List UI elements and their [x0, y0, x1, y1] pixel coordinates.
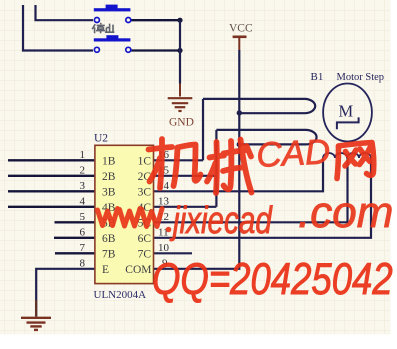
svg-text:QQ=20425042: QQ=20425042	[152, 254, 393, 304]
wire: pin4 input	[8, 206, 95, 208]
wire: top-left vertical to switch pole 2	[23, 5, 93, 51]
node: junction VCC / winding1 bottom	[237, 110, 242, 115]
wire: top-left vertical to switch pole 1	[36, 5, 94, 20]
svg-text:.com: .com	[298, 188, 393, 237]
wire: pin1 input	[8, 159, 95, 161]
node: junction VCC / winding2 bottom	[237, 142, 242, 147]
switch S1 pole 1 (stop button)	[94, 5, 131, 23]
wire: pin3 input	[8, 190, 95, 192]
wire: pin15 stub	[154, 175, 216, 177]
IC U2 ULN2004A body	[95, 145, 154, 283]
svg-text:4: 4	[80, 195, 86, 207]
label: 停止 (stop) hand-drawn glyphs	[92, 23, 114, 33]
svg-text:1B: 1B	[102, 155, 116, 167]
www hand-drawn	[98, 209, 163, 227]
node: junction at rail/pole1	[177, 18, 182, 23]
svg-text:3C: 3C	[138, 186, 152, 198]
svg-text:8: 8	[80, 257, 86, 269]
wire: riser pin13 to winding2 top	[215, 130, 217, 207]
wire: pin13 stub	[154, 206, 217, 208]
wire: pin10 stub	[154, 252, 193, 254]
svg-text:1: 1	[80, 149, 86, 161]
svg-text:6C: 6C	[138, 233, 152, 245]
watermark char 网	[337, 143, 374, 179]
svg-text:2B: 2B	[102, 171, 116, 183]
svg-text:3: 3	[80, 180, 86, 192]
wire: switch pole2 right to GND rail	[131, 49, 180, 51]
wire: pin2 input	[8, 175, 95, 177]
motor coil wavy line	[323, 153, 371, 158]
motor B1 body	[323, 84, 372, 142]
svg-text:10: 10	[158, 242, 170, 254]
svg-text:13: 13	[158, 195, 170, 207]
pin numbers right	[158, 149, 170, 269]
svg-text:jixiecad: jixiecad	[170, 200, 273, 242]
svg-text:ULN2004A: ULN2004A	[94, 289, 147, 301]
period after www	[166, 227, 172, 233]
svg-text:6B: 6B	[102, 233, 116, 245]
pin numbers left	[80, 149, 86, 269]
wire: pin16 stub	[154, 159, 204, 161]
wire: pin7 input	[55, 252, 95, 254]
switch S1 pole 2	[94, 35, 131, 52]
svg-text:6: 6	[80, 226, 86, 238]
svg-text:5: 5	[80, 211, 86, 223]
wire: pin5 input	[55, 221, 95, 223]
svg-text:CAD: CAD	[255, 132, 331, 175]
svg-text:7B: 7B	[102, 248, 116, 260]
svg-text:E: E	[102, 264, 109, 276]
svg-text:VCC: VCC	[229, 23, 253, 35]
svg-text:1C: 1C	[138, 155, 152, 167]
watermark text www.jixiecad.com	[98, 188, 394, 242]
svg-text:GND: GND	[169, 117, 194, 129]
ground symbol GND (top)	[168, 98, 193, 111]
wire: motor pin C riser to pin11	[154, 158, 372, 238]
svg-text:M: M	[339, 102, 354, 121]
wire: motor pin B riser to pin12	[154, 158, 348, 222]
svg-text:COM: COM	[125, 264, 151, 276]
svg-text:7C: 7C	[138, 248, 152, 260]
wire: pin6 input	[54, 237, 95, 239]
svg-text:7: 7	[80, 242, 86, 254]
node: junction at rail/pole2	[177, 48, 182, 53]
watermark char 械	[207, 140, 252, 194]
wire: pin8 E to ground	[36, 269, 95, 317]
wire: vertical rail down to ground	[179, 20, 181, 83]
wire: motor pin A riser to pin14	[154, 158, 324, 191]
svg-text:U2: U2	[94, 133, 108, 145]
wire: switch pole1 right to GND rail	[131, 19, 180, 21]
pin labels right column	[125, 155, 151, 275]
wire: VCC rail down to pin 9	[154, 50, 240, 269]
svg-text:Motor Step: Motor Step	[337, 72, 385, 83]
watermark char 机	[149, 139, 201, 188]
power symbol VCC	[233, 35, 247, 38]
svg-text:B1: B1	[311, 71, 324, 83]
wire: riser pin16 to winding1 top	[202, 99, 204, 160]
motor winding W2 (bottom D-loop)	[216, 130, 316, 145]
svg-text:3B: 3B	[102, 186, 116, 198]
motor winding W1 (top D-loop)	[203, 99, 315, 113]
ground symbol (bottom, at pin8)	[21, 318, 51, 330]
svg-text:2: 2	[80, 164, 86, 176]
pin labels left column	[102, 155, 116, 275]
